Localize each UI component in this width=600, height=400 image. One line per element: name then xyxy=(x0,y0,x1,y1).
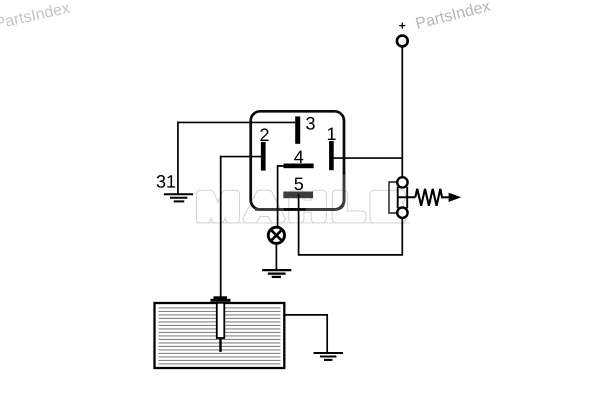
wire: tank to right ground xyxy=(285,315,328,353)
indicator lamp xyxy=(268,227,284,243)
relay pin 1 bar xyxy=(329,141,334,170)
relay pin 1 label xyxy=(328,128,336,140)
wire: pin5 drop, run right, up to solenoid bottom xyxy=(299,194,403,255)
watermark MAHLE baseline rule xyxy=(196,222,410,224)
relay box outline xyxy=(251,111,344,209)
wire: lamp to ground xyxy=(275,243,277,270)
arrow head xyxy=(449,193,462,202)
relay pin 4 bar xyxy=(284,164,314,169)
label 31 xyxy=(157,175,175,188)
relay pin 4 label xyxy=(294,151,303,163)
watermark MAHLE (hollow gray letters) xyxy=(200,194,402,219)
fuel tank box xyxy=(155,303,285,368)
watermark PartsIndex top-left xyxy=(0,1,71,29)
fuel pump body xyxy=(217,303,225,338)
fuel tank hatch lines xyxy=(159,308,281,364)
relay pin 2 bar xyxy=(261,142,266,171)
relay pin 3 bar xyxy=(295,116,300,143)
wire: pin2 horizontal from tank riser xyxy=(220,156,261,158)
wire: pin3 horizontal from ground 31 riser xyxy=(177,121,295,123)
wire: pin1 to + vertical wire xyxy=(334,157,404,159)
battery positive terminal circle xyxy=(397,36,408,47)
relay pin 5 label xyxy=(295,178,304,191)
plus terminal label + xyxy=(399,23,405,29)
ground under lamp xyxy=(262,270,291,277)
wire: riser down to ground 31 xyxy=(177,122,179,194)
solenoid top circle xyxy=(397,177,407,187)
relay pin 5 bar (gray) xyxy=(283,192,313,199)
fuel pump flange xyxy=(211,299,231,302)
solenoid bottom circle xyxy=(397,208,407,218)
relay box gray lower-right section xyxy=(255,175,344,209)
wire: pin4 stub and drop to lamp xyxy=(278,166,284,227)
ground right of tank xyxy=(314,353,344,360)
ground 31 symbol xyxy=(164,194,193,201)
solenoid body side lines xyxy=(397,187,399,208)
solenoid middle lead xyxy=(398,196,416,198)
solenoid bracket xyxy=(389,182,397,213)
resistor zigzag xyxy=(415,189,449,206)
wire: riser down to fuel tank pump xyxy=(220,156,222,297)
relay pin 3 label xyxy=(306,117,315,130)
fuel pump needle xyxy=(219,339,221,352)
watermark PartsIndex top-right xyxy=(415,0,491,29)
wire: + terminal down to solenoid top xyxy=(401,46,403,178)
relay pin 2 label xyxy=(260,128,268,141)
